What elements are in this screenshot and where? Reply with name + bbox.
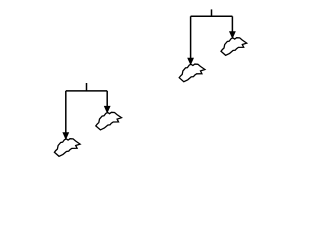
left scrap shape bbox=[54, 139, 80, 157]
tick (top stub) bbox=[86, 83, 88, 91]
left scrap shape bbox=[179, 64, 205, 82]
right arrowhead bbox=[104, 106, 111, 114]
tick (top stub) bbox=[211, 9, 213, 16]
left drop wire bbox=[65, 91, 67, 134]
right scrap shape bbox=[96, 112, 122, 130]
horizontal bar bbox=[191, 15, 233, 17]
right arrowhead bbox=[229, 31, 236, 39]
right drop wire bbox=[106, 91, 108, 108]
right scrap shape bbox=[221, 38, 247, 56]
left arrowhead bbox=[62, 132, 69, 140]
horizontal bar bbox=[66, 90, 107, 92]
left drop wire bbox=[190, 16, 192, 59]
right drop wire bbox=[231, 16, 233, 33]
left arrowhead bbox=[187, 58, 194, 66]
